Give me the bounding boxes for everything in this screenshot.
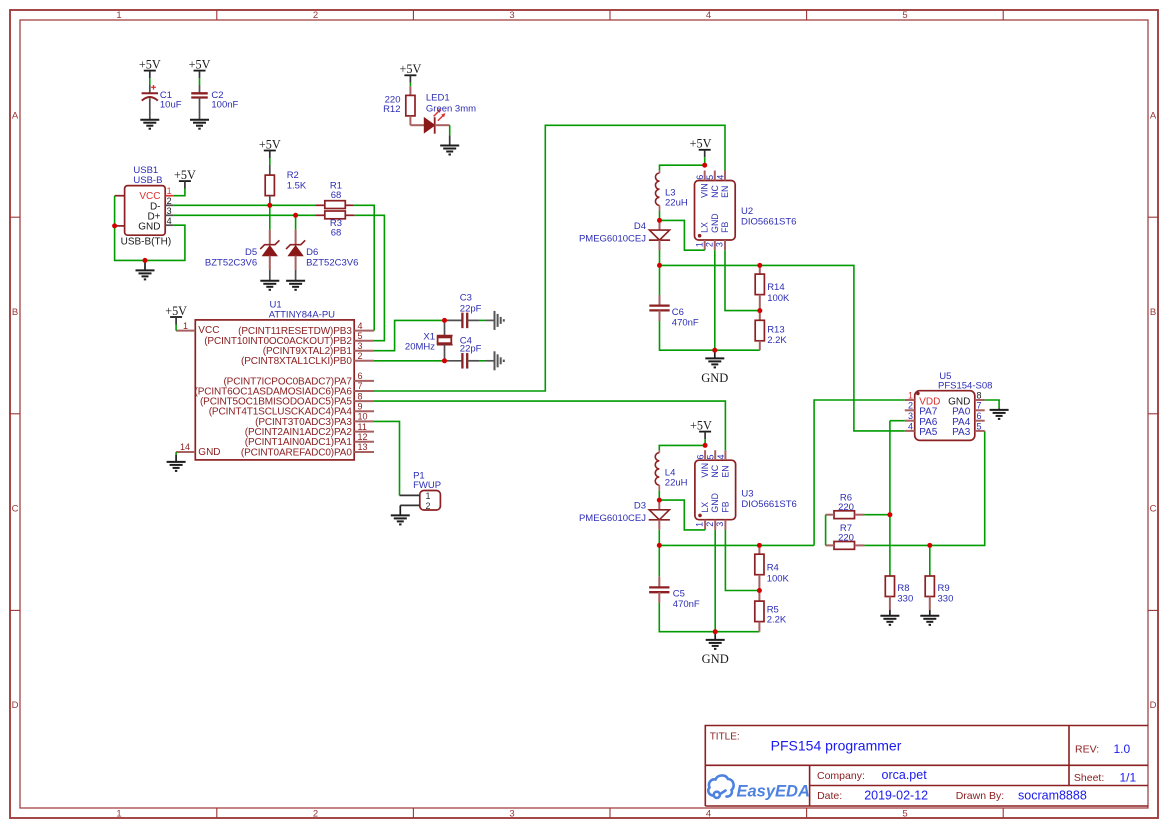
svg-text:7: 7 — [977, 401, 982, 411]
svg-text:4: 4 — [706, 10, 711, 21]
svg-text:USB-B: USB-B — [133, 175, 162, 186]
svg-text:PA3: PA3 — [952, 427, 971, 438]
svg-text:C: C — [1150, 503, 1157, 514]
svg-text:1: 1 — [183, 321, 188, 331]
svg-text:330: 330 — [897, 594, 913, 605]
svg-text:EN: EN — [720, 186, 730, 198]
svg-text:5: 5 — [902, 808, 907, 819]
svg-text:C: C — [12, 503, 19, 514]
svg-text:4: 4 — [908, 421, 913, 431]
svg-text:5: 5 — [902, 10, 907, 21]
svg-text:10: 10 — [358, 412, 368, 422]
svg-text:U3: U3 — [741, 489, 753, 500]
svg-text:470nF: 470nF — [672, 317, 699, 328]
svg-text:GND: GND — [710, 213, 720, 233]
svg-text:PMEG6010CEJ: PMEG6010CEJ — [579, 233, 646, 244]
svg-text:12: 12 — [358, 432, 368, 442]
svg-text:orca.pet: orca.pet — [882, 768, 928, 782]
svg-text:FB: FB — [720, 222, 730, 233]
svg-text:Date:: Date: — [817, 790, 842, 802]
svg-text:GND: GND — [702, 652, 729, 666]
svg-text:22pF: 22pF — [460, 343, 482, 354]
svg-text:D: D — [1150, 700, 1157, 711]
svg-text:+5V: +5V — [165, 304, 187, 318]
svg-text:NC: NC — [710, 464, 720, 477]
svg-text:PMEG6010CEJ: PMEG6010CEJ — [579, 513, 646, 524]
svg-text:1.5K: 1.5K — [287, 181, 307, 192]
svg-text:LX: LX — [700, 502, 710, 513]
svg-text:TITLE:: TITLE: — [710, 732, 740, 743]
svg-text:A: A — [1150, 110, 1157, 121]
svg-text:(PCINT0AREFADC0)PA0: (PCINT0AREFADC0)PA0 — [241, 447, 352, 458]
svg-text:6: 6 — [977, 411, 982, 421]
svg-text:100K: 100K — [767, 293, 790, 304]
svg-text:22uH: 22uH — [665, 477, 688, 488]
svg-text:Company:: Company: — [817, 770, 865, 782]
svg-text:2: 2 — [425, 501, 430, 511]
svg-text:3: 3 — [167, 206, 172, 216]
svg-text:A: A — [12, 110, 19, 121]
svg-text:2: 2 — [705, 522, 715, 527]
svg-text:3: 3 — [715, 242, 725, 247]
svg-text:R14: R14 — [767, 282, 784, 293]
svg-text:BZT52C3V6: BZT52C3V6 — [205, 257, 257, 268]
svg-text:BZT52C3V6: BZT52C3V6 — [306, 257, 358, 268]
svg-text:20MHz: 20MHz — [405, 342, 435, 353]
svg-text:ATTINY84A-PU: ATTINY84A-PU — [269, 309, 335, 320]
svg-text:1: 1 — [116, 808, 121, 819]
svg-text:R4: R4 — [767, 562, 779, 573]
svg-text:D: D — [12, 700, 19, 711]
svg-text:3: 3 — [715, 522, 725, 527]
svg-text:2: 2 — [908, 401, 913, 411]
svg-text:220: 220 — [838, 533, 854, 544]
svg-text:LX: LX — [700, 222, 710, 233]
svg-text:REV:: REV: — [1075, 744, 1099, 756]
svg-text:11: 11 — [358, 422, 367, 432]
svg-text:GND: GND — [701, 371, 728, 385]
svg-text:+5V: +5V — [139, 57, 161, 71]
svg-text:D3: D3 — [634, 501, 646, 512]
svg-text:4: 4 — [706, 808, 711, 819]
svg-text:1: 1 — [908, 390, 913, 400]
svg-text:+5V: +5V — [690, 418, 712, 432]
svg-text:5: 5 — [977, 421, 982, 431]
svg-text:2.2K: 2.2K — [767, 335, 787, 346]
svg-text:R9: R9 — [938, 583, 950, 594]
svg-text:U2: U2 — [741, 206, 753, 217]
svg-text:B: B — [1150, 307, 1156, 318]
svg-text:VIN: VIN — [700, 183, 710, 198]
svg-text:6: 6 — [696, 454, 706, 459]
svg-text:68: 68 — [331, 228, 342, 239]
svg-text:C5: C5 — [673, 589, 685, 600]
svg-text:1/1: 1/1 — [1120, 770, 1137, 784]
svg-text:2: 2 — [313, 808, 318, 819]
svg-text:5: 5 — [358, 331, 363, 341]
svg-text:+5V: +5V — [690, 137, 712, 151]
svg-text:1.0: 1.0 — [1114, 742, 1131, 756]
svg-text:3: 3 — [509, 808, 514, 819]
svg-text:4: 4 — [715, 175, 725, 180]
svg-text:socram8888: socram8888 — [1018, 789, 1087, 803]
svg-text:2: 2 — [704, 242, 714, 247]
svg-text:R12: R12 — [383, 104, 400, 115]
svg-text:3: 3 — [358, 341, 363, 351]
svg-text:FB: FB — [720, 501, 730, 512]
svg-text:5: 5 — [706, 454, 716, 459]
svg-text:GND: GND — [138, 221, 160, 232]
svg-text:R2: R2 — [287, 170, 299, 181]
svg-text:4: 4 — [716, 454, 726, 459]
svg-text:1: 1 — [116, 10, 121, 21]
svg-text:3: 3 — [908, 411, 913, 421]
svg-text:1: 1 — [167, 186, 172, 196]
svg-text:GND: GND — [710, 493, 720, 513]
svg-text:NC: NC — [710, 185, 720, 198]
svg-text:C3: C3 — [460, 292, 472, 303]
svg-text:7: 7 — [358, 381, 363, 391]
svg-text:68: 68 — [331, 190, 342, 201]
svg-text:+5V: +5V — [174, 168, 196, 182]
svg-text:USB-B(TH): USB-B(TH) — [121, 237, 172, 248]
svg-text:6: 6 — [358, 371, 363, 381]
svg-text:PFS154 programmer: PFS154 programmer — [771, 738, 902, 754]
svg-text:8: 8 — [977, 390, 982, 400]
svg-text:220: 220 — [838, 502, 854, 513]
svg-text:+5V: +5V — [259, 137, 281, 151]
svg-text:1: 1 — [695, 522, 705, 527]
svg-text:2: 2 — [313, 10, 318, 21]
svg-text:PA5: PA5 — [919, 427, 938, 438]
svg-text:2.2K: 2.2K — [767, 615, 787, 626]
svg-text:B: B — [12, 307, 18, 318]
svg-text:(PCINT8XTAL1CLKI)PB0: (PCINT8XTAL1CLKI)PB0 — [241, 356, 352, 367]
svg-text:4: 4 — [167, 216, 172, 226]
svg-text:LED1: LED1 — [426, 93, 450, 104]
svg-text:GND: GND — [198, 447, 220, 458]
svg-text:Green 3mm: Green 3mm — [426, 103, 476, 114]
svg-text:EN: EN — [720, 465, 730, 477]
svg-text:R8: R8 — [897, 583, 909, 594]
svg-text:FWUP: FWUP — [413, 480, 441, 491]
svg-text:2: 2 — [358, 351, 363, 361]
svg-text:100K: 100K — [767, 573, 790, 584]
svg-text:1: 1 — [694, 242, 704, 247]
svg-text:D4: D4 — [634, 221, 646, 232]
svg-text:DIO5661ST6: DIO5661ST6 — [741, 499, 796, 510]
svg-text:DIO5661ST6: DIO5661ST6 — [741, 217, 796, 228]
svg-text:14: 14 — [180, 442, 190, 452]
svg-text:470nF: 470nF — [673, 599, 700, 610]
svg-text:10uF: 10uF — [160, 100, 182, 111]
svg-text:EasyEDA: EasyEDA — [737, 783, 810, 801]
svg-text:330: 330 — [938, 594, 954, 605]
svg-text:22uH: 22uH — [665, 198, 688, 209]
svg-text:VIN: VIN — [700, 463, 710, 478]
svg-text:6: 6 — [695, 175, 705, 180]
svg-text:22pF: 22pF — [460, 303, 482, 314]
svg-text:+5V: +5V — [400, 62, 422, 76]
svg-text:100nF: 100nF — [211, 100, 238, 111]
svg-text:8: 8 — [358, 391, 363, 401]
svg-text:5: 5 — [705, 175, 715, 180]
svg-text:13: 13 — [358, 442, 368, 452]
svg-text:4: 4 — [358, 321, 363, 331]
svg-text:1: 1 — [425, 491, 430, 501]
svg-text:2019-02-12: 2019-02-12 — [864, 789, 928, 803]
svg-text:C6: C6 — [672, 307, 684, 318]
svg-text:9: 9 — [358, 401, 363, 411]
svg-text:+5V: +5V — [189, 57, 211, 71]
svg-text:VCC: VCC — [198, 325, 219, 336]
svg-text:PFS154-S08: PFS154-S08 — [938, 380, 992, 391]
svg-text:Sheet:: Sheet: — [1074, 772, 1104, 784]
svg-text:R13: R13 — [767, 324, 784, 335]
svg-text:3: 3 — [509, 10, 514, 21]
svg-text:2: 2 — [167, 196, 172, 206]
svg-text:Drawn By:: Drawn By: — [956, 790, 1004, 802]
